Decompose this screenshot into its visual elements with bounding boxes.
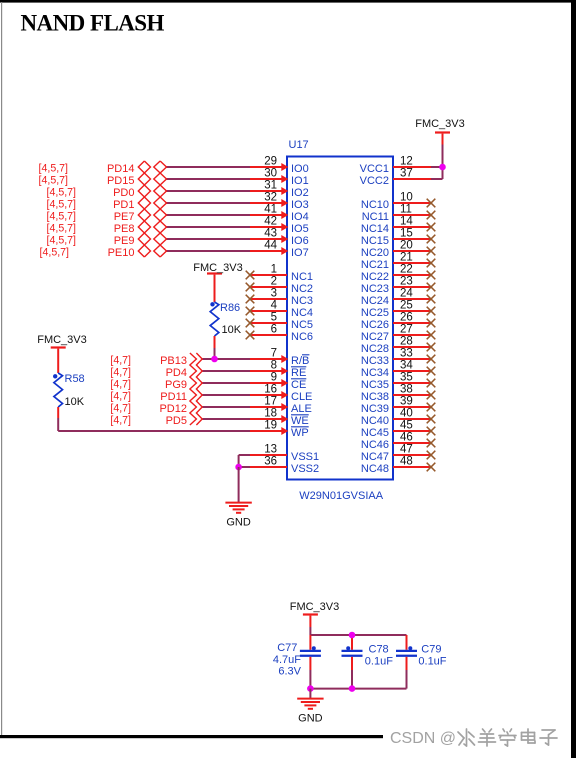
- svg-text:26: 26: [400, 312, 413, 324]
- svg-text:2: 2: [271, 276, 277, 288]
- svg-text:NC46: NC46: [361, 439, 389, 451]
- svg-text:37: 37: [400, 168, 413, 180]
- svg-text:39: 39: [400, 396, 413, 408]
- svg-text:NC47: NC47: [361, 451, 389, 463]
- svg-text:CLE: CLE: [291, 391, 312, 403]
- svg-text:NC2: NC2: [291, 283, 313, 295]
- svg-text:NC38: NC38: [361, 391, 389, 403]
- svg-text:25: 25: [400, 300, 413, 312]
- svg-text:13: 13: [264, 444, 277, 456]
- svg-text:R86: R86: [220, 302, 240, 314]
- svg-text:NC35: NC35: [361, 379, 389, 391]
- svg-text:1: 1: [271, 264, 277, 276]
- svg-text:PE7: PE7: [114, 211, 135, 223]
- svg-text:C78: C78: [369, 644, 389, 656]
- svg-text:[4,5,7]: [4,5,7]: [47, 187, 77, 199]
- svg-text:R/B: R/B: [291, 355, 309, 367]
- svg-text:NC45: NC45: [361, 427, 389, 439]
- svg-text:IO4: IO4: [291, 211, 309, 223]
- svg-text:42: 42: [264, 216, 277, 228]
- svg-text:30: 30: [264, 168, 277, 180]
- svg-text:NC28: NC28: [361, 343, 389, 355]
- svg-text:NC26: NC26: [361, 319, 389, 331]
- svg-text:[4,5,7]: [4,5,7]: [47, 199, 77, 211]
- svg-text:20: 20: [400, 240, 413, 252]
- svg-text:RE: RE: [291, 367, 306, 379]
- svg-text:40: 40: [400, 408, 413, 420]
- svg-text:NC21: NC21: [361, 259, 389, 271]
- svg-text:43: 43: [264, 228, 277, 240]
- svg-text:NC39: NC39: [361, 403, 389, 415]
- svg-text:IO3: IO3: [291, 199, 309, 211]
- svg-text:NC4: NC4: [291, 307, 313, 319]
- svg-text:FMC_3V3: FMC_3V3: [37, 334, 87, 346]
- svg-text:PG9: PG9: [165, 379, 187, 391]
- svg-text:35: 35: [400, 372, 413, 384]
- svg-text:29: 29: [264, 156, 277, 168]
- svg-text:48: 48: [400, 456, 413, 468]
- svg-text:PD15: PD15: [107, 175, 135, 187]
- svg-text:NC27: NC27: [361, 331, 389, 343]
- svg-text:NC23: NC23: [361, 283, 389, 295]
- svg-text:C79: C79: [421, 644, 441, 656]
- svg-text:PD5: PD5: [166, 415, 187, 427]
- svg-text:C77: C77: [277, 642, 297, 654]
- svg-text:PD1: PD1: [113, 199, 134, 211]
- svg-text:VCC2: VCC2: [360, 175, 389, 187]
- svg-text:[4,5,7]: [4,5,7]: [47, 223, 77, 235]
- svg-text:45: 45: [400, 420, 413, 432]
- svg-text:7: 7: [271, 348, 277, 360]
- svg-text:IO7: IO7: [291, 247, 309, 259]
- svg-text:8: 8: [271, 360, 277, 372]
- svg-text:WE: WE: [291, 415, 309, 427]
- svg-text:NC10: NC10: [361, 199, 389, 211]
- svg-text:NC33: NC33: [361, 355, 389, 367]
- svg-text:44: 44: [264, 240, 277, 252]
- svg-text:0.1uF: 0.1uF: [365, 656, 393, 668]
- svg-text:27: 27: [400, 324, 413, 336]
- svg-text:14: 14: [400, 216, 413, 228]
- svg-text:U17: U17: [289, 139, 309, 151]
- svg-text:[4,7]: [4,7]: [110, 415, 131, 427]
- svg-text:FMC_3V3: FMC_3V3: [193, 262, 243, 274]
- svg-text:16: 16: [264, 384, 277, 396]
- svg-text:[4,7]: [4,7]: [110, 391, 131, 403]
- svg-text:[4,5,7]: [4,5,7]: [40, 247, 70, 259]
- svg-text:[4,5,7]: [4,5,7]: [39, 163, 69, 175]
- svg-text:GND: GND: [226, 517, 251, 529]
- svg-text:NC48: NC48: [361, 463, 389, 475]
- svg-text:IO1: IO1: [291, 175, 309, 187]
- svg-text:34: 34: [400, 360, 413, 372]
- svg-text:PE9: PE9: [114, 235, 135, 247]
- svg-text:VSS2: VSS2: [291, 463, 319, 475]
- svg-text:19: 19: [264, 420, 277, 432]
- svg-text:IO6: IO6: [291, 235, 309, 247]
- svg-text:VCC1: VCC1: [360, 163, 389, 175]
- svg-text:W29N01GVSIAA: W29N01GVSIAA: [299, 490, 383, 502]
- svg-text:NC25: NC25: [361, 307, 389, 319]
- svg-text:5: 5: [271, 312, 277, 324]
- svg-text:CE: CE: [291, 379, 306, 391]
- svg-text:PD11: PD11: [160, 391, 187, 403]
- svg-text:NC34: NC34: [361, 367, 389, 379]
- svg-text:24: 24: [400, 288, 413, 300]
- svg-text:NC40: NC40: [361, 415, 389, 427]
- svg-text:IO5: IO5: [291, 223, 309, 235]
- svg-text:PD14: PD14: [107, 163, 135, 175]
- svg-text:9: 9: [271, 372, 277, 384]
- svg-text:0.1uF: 0.1uF: [418, 656, 446, 668]
- svg-text:11: 11: [400, 204, 412, 216]
- svg-text:3: 3: [271, 288, 277, 300]
- svg-text:[4,7]: [4,7]: [110, 379, 131, 391]
- svg-text:IO0: IO0: [291, 163, 309, 175]
- svg-text:[4,7]: [4,7]: [110, 403, 131, 415]
- svg-text:NC22: NC22: [361, 271, 389, 283]
- svg-text:10K: 10K: [65, 396, 85, 408]
- svg-text:NC20: NC20: [361, 247, 389, 259]
- svg-text:31: 31: [264, 180, 277, 192]
- svg-text:NC15: NC15: [361, 235, 389, 247]
- svg-text:NC11: NC11: [362, 211, 389, 223]
- svg-text:17: 17: [264, 396, 277, 408]
- svg-text:PB13: PB13: [160, 355, 187, 367]
- svg-text:[4,5,7]: [4,5,7]: [39, 175, 69, 187]
- svg-text:WP: WP: [291, 427, 309, 439]
- svg-text:VSS1: VSS1: [291, 451, 319, 463]
- svg-text:NC3: NC3: [291, 295, 313, 307]
- svg-text:NC1: NC1: [291, 271, 313, 283]
- svg-text:IO2: IO2: [291, 187, 309, 199]
- svg-text:PD0: PD0: [113, 187, 134, 199]
- svg-text:21: 21: [400, 252, 413, 264]
- svg-text:[4,7]: [4,7]: [110, 367, 131, 379]
- svg-text:[4,5,7]: [4,5,7]: [47, 211, 77, 223]
- svg-text:47: 47: [400, 444, 413, 456]
- svg-text:33: 33: [400, 348, 413, 360]
- svg-text:NC14: NC14: [361, 223, 389, 235]
- svg-text:12: 12: [400, 156, 413, 168]
- svg-text:41: 41: [264, 204, 277, 216]
- svg-text:PE10: PE10: [108, 247, 135, 259]
- svg-text:6: 6: [271, 324, 277, 336]
- svg-text:FMC_3V3: FMC_3V3: [415, 118, 465, 130]
- svg-text:PD4: PD4: [166, 367, 187, 379]
- svg-text:32: 32: [264, 192, 277, 204]
- svg-text:CSDN @: CSDN @: [390, 730, 456, 747]
- svg-text:[4,7]: [4,7]: [110, 355, 131, 367]
- svg-text:NAND FLASH: NAND FLASH: [21, 11, 165, 36]
- svg-text:10: 10: [400, 192, 413, 204]
- svg-text:GND: GND: [298, 713, 323, 725]
- svg-text:NC6: NC6: [291, 331, 313, 343]
- svg-text:4.7uF: 4.7uF: [273, 654, 301, 666]
- svg-text:15: 15: [400, 228, 413, 240]
- svg-text:FMC_3V3: FMC_3V3: [290, 601, 340, 613]
- svg-text:6.3V: 6.3V: [278, 666, 301, 678]
- svg-text:NC24: NC24: [361, 295, 389, 307]
- svg-text:46: 46: [400, 432, 413, 444]
- svg-text:28: 28: [400, 336, 413, 348]
- svg-text:R58: R58: [65, 373, 85, 385]
- svg-text:[4,5,7]: [4,5,7]: [47, 235, 77, 247]
- svg-text:22: 22: [400, 264, 413, 276]
- svg-text:23: 23: [400, 276, 413, 288]
- svg-text:36: 36: [264, 456, 277, 468]
- svg-text:PE8: PE8: [114, 223, 135, 235]
- svg-text:PD12: PD12: [159, 403, 187, 415]
- svg-text:NC5: NC5: [291, 319, 313, 331]
- svg-text:4: 4: [271, 300, 278, 312]
- svg-text:18: 18: [264, 408, 277, 420]
- svg-text:10K: 10K: [222, 324, 242, 336]
- svg-text:38: 38: [400, 384, 413, 396]
- svg-text:ALE: ALE: [291, 403, 312, 415]
